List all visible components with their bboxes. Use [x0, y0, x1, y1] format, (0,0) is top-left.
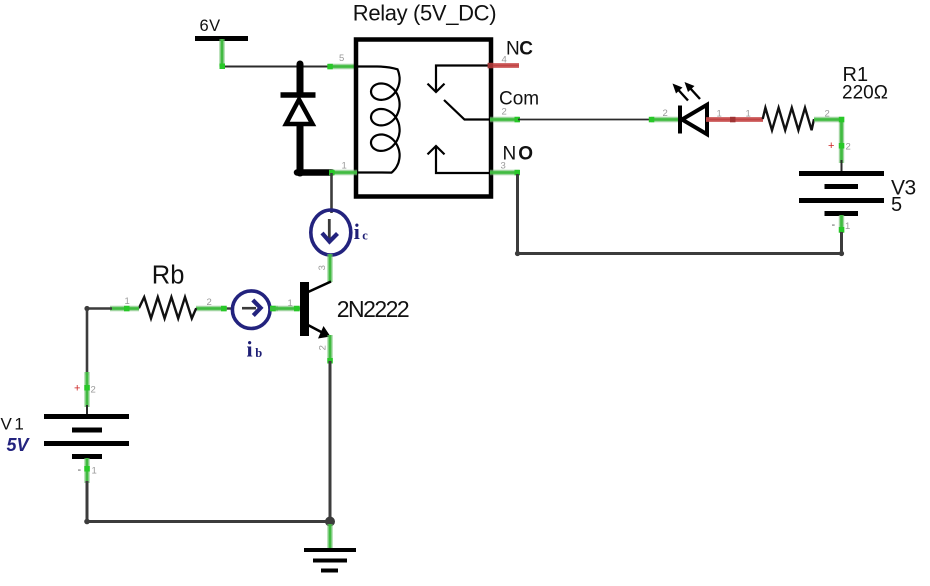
- relay box U1: [356, 40, 491, 197]
- wire green V1 pin 2: [84, 372, 90, 407]
- svg-text:5: 5: [339, 53, 344, 64]
- wire NO to V3 bottom: [515, 174, 844, 256]
- svg-text:5V: 5V: [7, 435, 31, 455]
- svg-text:-: -: [78, 464, 82, 476]
- diode D1 flyback (thick branch): [281, 64, 333, 177]
- svg-text:3: 3: [317, 265, 328, 270]
- wire green Rb pin 1: [110, 306, 139, 312]
- wire Com to LED: [518, 119, 652, 121]
- svg-text:V1: V1: [1, 415, 27, 434]
- wire V1 top to Rb: [84, 306, 112, 375]
- svg-text:-: -: [832, 219, 836, 231]
- wire V1 bottom to ground junction: [84, 481, 330, 524]
- LED D2: [680, 105, 707, 134]
- svg-text:1: 1: [717, 109, 722, 120]
- svg-text:1: 1: [342, 161, 347, 172]
- svg-text:2N2222: 2N2222: [337, 296, 409, 322]
- svg-text:Com: Com: [499, 89, 539, 110]
- wire collector: relay pin1 node down to ic probe: [330, 173, 333, 213]
- svg-text:1: 1: [288, 298, 293, 309]
- current probe ic: [311, 210, 351, 255]
- wire green emitter pin 2: [327, 335, 333, 364]
- svg-text:N: N: [506, 39, 520, 60]
- svg-text:Rb: Rb: [152, 261, 185, 289]
- svg-text:220Ω: 220Ω: [842, 83, 888, 104]
- svg-text:i: i: [247, 336, 253, 361]
- svg-text:+: +: [74, 383, 80, 395]
- wire green V1 pin 1: [84, 458, 90, 483]
- svg-text:2: 2: [207, 297, 212, 308]
- svg-text:1: 1: [746, 109, 751, 120]
- wire green junction to ground: [329, 524, 331, 549]
- junction node: [325, 517, 335, 527]
- wire green from 6V rail down: [220, 39, 226, 69]
- wire green R1 pin 2 corner: [814, 117, 844, 163]
- resistor R1: [763, 108, 814, 130]
- battery V3: [799, 174, 884, 214]
- svg-text:b: b: [255, 346, 262, 360]
- wire green V3 pin 1: [839, 215, 845, 233]
- battery V1: [44, 417, 129, 457]
- svg-text:i: i: [354, 219, 360, 244]
- relay pin 2 Com green stub: [490, 117, 520, 123]
- wire green relay pin 5: [327, 64, 357, 70]
- relay pin 1 green stub: [329, 170, 357, 176]
- svg-text:6V: 6V: [200, 17, 221, 35]
- wire green ib to base (resistor pin2 side): [196, 306, 227, 312]
- green stub ib right side: [270, 306, 278, 312]
- svg-text:O: O: [518, 144, 533, 165]
- relay pin 3 NO green stub: [490, 170, 520, 176]
- relay pin 4 NC red stub: [488, 63, 519, 69]
- svg-text:c: c: [362, 229, 368, 243]
- svg-text:+: +: [828, 140, 834, 152]
- wire 6V rail to diode/relay: [222, 66, 330, 68]
- wire green LED pin 2: [649, 117, 679, 123]
- wire green base pin 1: [270, 306, 300, 312]
- svg-text:1: 1: [125, 296, 130, 307]
- LED light arrows: [673, 82, 701, 101]
- svg-text:N: N: [503, 144, 517, 165]
- relay coil: [356, 67, 400, 173]
- current probe ib: [226, 291, 270, 329]
- resistor Rb: [139, 297, 196, 318]
- power rail 6V: [195, 17, 248, 39]
- relay switch contacts: [428, 66, 490, 174]
- wire red LED to R1: [706, 117, 763, 123]
- svg-text:Relay (5V_DC): Relay (5V_DC): [353, 0, 496, 25]
- svg-text:2: 2: [318, 345, 329, 350]
- svg-text:5: 5: [891, 194, 902, 216]
- svg-text:1: 1: [92, 466, 97, 477]
- transistor Q1 2N2222: [300, 282, 331, 339]
- svg-text:2: 2: [846, 142, 851, 153]
- wire green ic to collector pin 3: [329, 254, 331, 282]
- svg-text:1: 1: [845, 221, 850, 232]
- svg-text:C: C: [519, 39, 533, 60]
- wire emitter down to junction: [329, 361, 332, 522]
- ground: [304, 550, 356, 571]
- svg-text:2: 2: [91, 385, 96, 396]
- svg-text:2: 2: [825, 109, 830, 120]
- svg-text:2: 2: [663, 108, 668, 119]
